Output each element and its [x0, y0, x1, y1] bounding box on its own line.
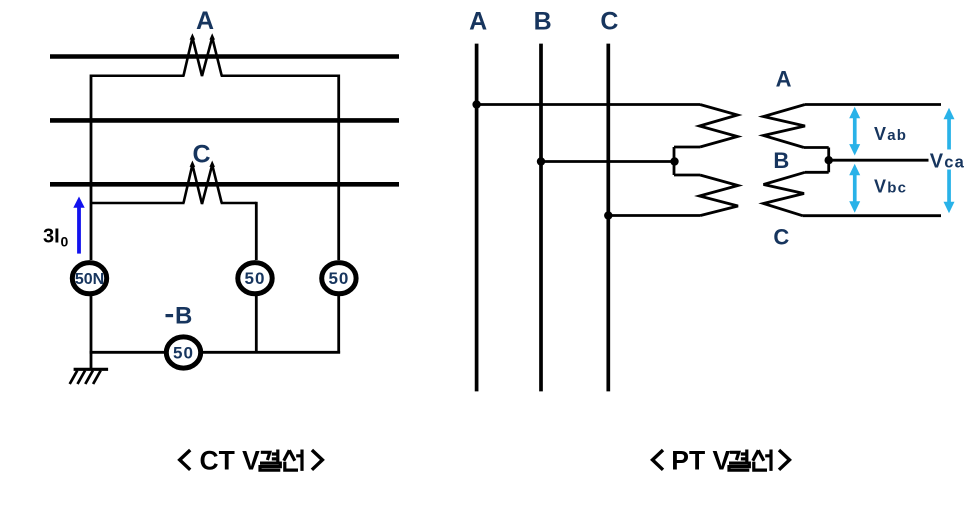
PT phase line C [606, 44, 610, 392]
wire bracket top stub [674, 146, 700, 149]
wire tap from A [477, 103, 700, 106]
wire primary bracket vertical [673, 147, 676, 175]
voltage arrow Vbc [849, 164, 860, 213]
svg-text:50: 50 [173, 344, 194, 363]
current arrow 3I0 [77, 206, 81, 254]
node on C [604, 211, 612, 219]
bus line phase C (bottom) [50, 182, 399, 187]
svg-text:50: 50 [245, 269, 266, 288]
CT A zigzag winding [184, 38, 222, 77]
wire secondary bracket vertical [827, 148, 830, 173]
bus line phase A (top) [50, 54, 399, 59]
caption PT: right angle bracket [779, 450, 790, 470]
node on B [537, 157, 545, 165]
bus line phase B (middle) [50, 118, 399, 123]
PT phase line B [539, 44, 543, 392]
wire middle vertical (CT C to relay 50) [255, 202, 258, 260]
CT A tip arrowheads [190, 33, 215, 39]
svg-text:C: C [600, 7, 618, 35]
voltage arrow Vab [849, 107, 860, 156]
secondary line c [803, 214, 942, 217]
PT primary winding A-B zigzag [700, 105, 738, 148]
svg-text:Vab: Vab [874, 124, 907, 144]
caption CT: right angle bracket [312, 450, 323, 470]
svg-text:3I: 3I [43, 226, 60, 248]
svg-text:C: C [192, 141, 210, 169]
caption CT: hangul seon [284, 450, 302, 471]
CT C zigzag winding [184, 165, 222, 204]
PT phase line A [475, 44, 479, 392]
caption PT: left angle bracket [653, 450, 664, 470]
caption CT: left angle bracket [180, 450, 191, 470]
svg-text:Vbc: Vbc [874, 176, 907, 196]
wire tap from C [608, 214, 700, 217]
svg-text:B: B [175, 303, 192, 330]
wire right relay to bottom bus [337, 296, 340, 354]
relay 50 bottom circle (-B) [166, 337, 200, 368]
node on A [472, 100, 480, 108]
wire CT A secondary left [91, 74, 185, 77]
bottom wire right segment [203, 351, 340, 354]
node secondary b [825, 156, 833, 164]
svg-text:50N: 50N [75, 271, 104, 288]
relay 50 right circle [322, 263, 356, 294]
wire left vertical (50N branch) [90, 75, 93, 261]
svg-text:50: 50 [328, 269, 349, 288]
wire right vertical (phase A CT return) [337, 75, 340, 261]
svg-text:Vca: Vca [930, 151, 965, 173]
caption PT: hangul seon [753, 450, 771, 471]
svg-text:A: A [196, 7, 214, 35]
wire tap from B [541, 160, 674, 163]
wire 50N to ground junction [90, 296, 93, 370]
svg-text:0: 0 [61, 233, 69, 249]
PT primary winding B-C zigzag [700, 175, 739, 216]
caption PT: hangul gyeol [729, 450, 749, 471]
wire bracket bottom stub [674, 174, 700, 177]
svg-text:CT V: CT V [200, 446, 261, 476]
label -B [166, 314, 174, 317]
label Vca background [929, 150, 968, 170]
secondary line a [805, 103, 941, 106]
wire secondary bracket top stub [804, 146, 829, 149]
svg-text:B: B [773, 148, 789, 173]
wire secondary b line [829, 159, 929, 162]
wire middle relay to bottom bus [255, 296, 258, 354]
PT secondary winding b-c zigzag [764, 172, 806, 215]
ground symbol [74, 368, 109, 371]
wire secondary bracket bottom stub [805, 171, 829, 174]
CT C tip arrowheads [190, 161, 215, 167]
svg-text:B: B [534, 7, 552, 35]
svg-text:C: C [773, 225, 789, 250]
voltage arrow Vca [944, 108, 955, 213]
PT secondary winding a-b zigzag [764, 105, 806, 148]
node bracket B [670, 157, 678, 165]
relay 50 middle circle [238, 263, 272, 294]
svg-text:A: A [776, 66, 792, 91]
svg-text:A: A [469, 7, 487, 35]
bottom wire left segment [90, 351, 164, 354]
caption CT: hangul gyeol [260, 450, 280, 471]
wire CT C secondary left [91, 202, 185, 205]
svg-text:PT V: PT V [671, 446, 730, 476]
relay 50N circle [72, 263, 106, 294]
wire CT A secondary right [221, 74, 339, 77]
wire CT C secondary right [221, 202, 257, 205]
